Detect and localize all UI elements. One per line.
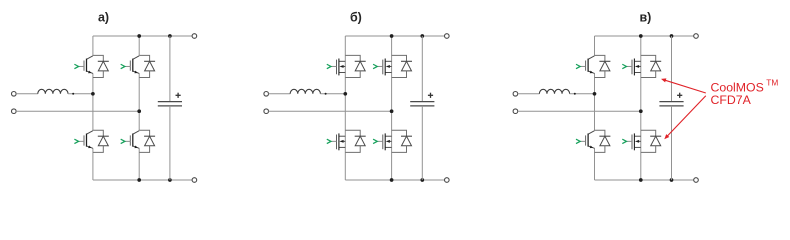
IGBT Q2 with diode D2 (а) xyxy=(121,55,155,77)
MOSFET Q3 with diode D3 (б) xyxy=(327,130,366,152)
CoolMOS MOSFET Q2 with body diode (в) xyxy=(622,55,661,77)
terminal DC output minus xyxy=(445,178,450,183)
wire right leg xyxy=(640,36,642,180)
wire inductor to left leg xyxy=(68,93,93,95)
capacitor polarity plus xyxy=(428,93,433,98)
inductor L (б) xyxy=(290,89,320,94)
terminal AC input top xyxy=(513,92,518,97)
node inductor output xyxy=(574,93,576,95)
wire left leg xyxy=(344,36,346,180)
svg-text:б): б) xyxy=(350,10,362,24)
junction bottom rail / right leg xyxy=(639,178,643,182)
junction top rail / capacitor xyxy=(168,34,172,38)
inductor L (а) xyxy=(38,89,68,94)
junction left leg / input top xyxy=(343,92,347,96)
junction bottom rail / capacitor xyxy=(670,178,674,182)
wire top rail xyxy=(93,35,194,37)
terminal AC input top xyxy=(12,92,17,97)
capacitor polarity plus xyxy=(677,93,682,98)
wire input bottom to right leg xyxy=(16,110,139,112)
node inductor output xyxy=(72,93,74,95)
junction top rail / right leg xyxy=(390,34,394,38)
wire bottom rail xyxy=(595,179,697,181)
junction bottom rail / capacitor xyxy=(168,178,172,182)
svg-text:TM: TM xyxy=(766,77,778,87)
annotation arrow to CoolMOS Q4 xyxy=(664,96,706,139)
junction bottom rail / right leg xyxy=(390,178,394,182)
wire top rail xyxy=(595,35,697,37)
IGBT Q3 with diode D3 (в) xyxy=(576,130,610,152)
junction bottom rail / capacitor xyxy=(420,178,424,182)
node inductor output xyxy=(325,93,327,95)
terminal AC input bottom xyxy=(12,109,17,114)
terminal DC output plus xyxy=(192,34,197,39)
terminal DC output minus xyxy=(694,178,699,183)
wire input bottom to right leg xyxy=(518,110,641,112)
wire left leg xyxy=(594,36,596,55)
terminal AC input top xyxy=(264,92,269,97)
junction top rail / right leg xyxy=(137,34,141,38)
wire input top to inductor xyxy=(16,93,38,95)
wire bottom rail xyxy=(93,179,194,181)
svg-text:а): а) xyxy=(98,10,109,24)
wire inductor to left leg xyxy=(320,93,345,95)
wire left leg xyxy=(92,36,94,55)
junction top rail / capacitor xyxy=(670,34,674,38)
wire top rail xyxy=(345,35,447,37)
annotation text CoolMOS TM CFD7A xyxy=(711,77,779,107)
wire inductor to left leg xyxy=(570,93,595,95)
MOSFET Q4 with diode D4 (б) xyxy=(373,130,412,152)
junction bottom rail / right leg xyxy=(137,178,141,182)
IGBT Q3 with diode D3 (а) xyxy=(74,130,108,152)
wire right leg xyxy=(138,36,140,55)
wire input bottom to right leg xyxy=(269,110,392,112)
junction left leg / input top xyxy=(91,92,95,96)
wire bottom rail xyxy=(345,179,447,181)
terminal AC input bottom xyxy=(513,109,518,114)
junction right leg / input bottom xyxy=(390,109,394,113)
junction left leg / input top xyxy=(593,92,597,96)
inductor L (в) xyxy=(539,89,569,94)
wire right leg xyxy=(391,36,393,180)
wire input top to inductor xyxy=(269,93,291,95)
capacitor C (б) xyxy=(410,36,434,180)
CoolMOS MOSFET Q4 with body diode (в) xyxy=(622,130,661,152)
MOSFET Q2 with diode D2 (б) xyxy=(373,55,412,77)
IGBT Q4 with diode D4 (а) xyxy=(121,130,155,152)
annotation arrow to CoolMOS Q2 xyxy=(661,78,706,93)
terminal DC output plus xyxy=(445,34,450,39)
MOSFET Q1 with diode D1 (б) xyxy=(327,55,366,77)
junction right leg / input bottom xyxy=(137,109,141,113)
svg-text:CFD7A: CFD7A xyxy=(711,93,752,107)
terminal AC input bottom xyxy=(264,109,269,114)
capacitor polarity plus xyxy=(176,93,181,98)
terminal DC output plus xyxy=(694,34,699,39)
junction top rail / right leg xyxy=(639,34,643,38)
IGBT Q1 with diode D1 (в) xyxy=(576,55,610,77)
IGBT Q1 with diode D1 (а) xyxy=(74,55,108,77)
wire input top to inductor xyxy=(518,93,540,95)
terminal DC output minus xyxy=(192,178,197,183)
junction right leg / input bottom xyxy=(639,109,643,113)
capacitor C (а) xyxy=(158,36,182,180)
capacitor C (в) xyxy=(659,36,683,180)
junction top rail / capacitor xyxy=(420,34,424,38)
svg-text:в): в) xyxy=(639,10,651,24)
